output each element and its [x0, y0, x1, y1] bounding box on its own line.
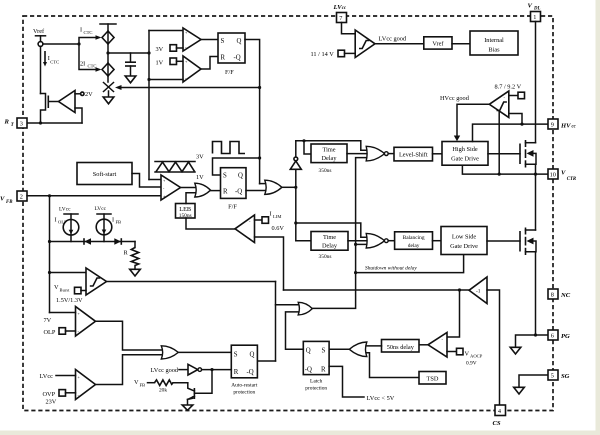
svg-text:350ns: 350ns	[319, 254, 332, 260]
wire HVcc comp output to driver	[457, 104, 489, 136]
wire VCTR rail	[462, 165, 548, 174]
svg-text:Q: Q	[306, 348, 311, 355]
svg-text:R: R	[124, 250, 129, 257]
wire shutdown net vertical	[312, 158, 366, 309]
wire into time delay 1	[304, 141, 311, 154]
comparator OVP	[76, 370, 96, 400]
svg-text:CS: CS	[493, 420, 501, 427]
junction bus lower comparator	[147, 78, 150, 81]
svg-text:protection: protection	[233, 390, 255, 396]
svg-text:V: V	[0, 196, 5, 203]
label VFB	[0, 196, 13, 206]
junction R / transistor	[210, 368, 213, 371]
label VCTR	[561, 170, 577, 183]
wire shutdown without delay	[356, 255, 464, 273]
svg-text:Burst: Burst	[60, 288, 71, 293]
wire OR5 output	[282, 186, 296, 188]
OLP terminal	[44, 328, 76, 336]
diode D1	[84, 238, 91, 245]
label RT	[4, 119, 15, 129]
svg-text:I: I	[55, 217, 57, 224]
svg-text:CTC: CTC	[84, 30, 93, 35]
label 2I CTC	[80, 61, 96, 69]
wire latch Q to OR2	[286, 312, 304, 349]
junction HVcc sense	[520, 123, 523, 126]
wire to discharge switch	[107, 76, 109, 82]
svg-text:protection: protection	[305, 386, 327, 392]
svg-text:Delay: Delay	[322, 243, 338, 250]
wire between current sources	[107, 44, 109, 63]
arrowhead at switch	[115, 85, 122, 90]
label I LIM	[270, 211, 282, 220]
comparator LVcc good (schmitt)	[355, 30, 375, 58]
pin 8 NC	[548, 289, 558, 299]
time delay 2 block	[311, 232, 348, 251]
svg-text:Internal: Internal	[484, 37, 504, 44]
svg-text:2I: 2I	[80, 61, 85, 68]
OVP terminal	[43, 390, 76, 398]
svg-text:0.6V: 0.6V	[272, 225, 285, 232]
svg-text:R: R	[221, 55, 226, 62]
transistor M1 (mosfet near RT)	[41, 94, 59, 124]
svg-text:-Q: -Q	[234, 55, 241, 62]
wire comp body to VCTR	[498, 111, 500, 175]
svg-text:R: R	[223, 189, 228, 196]
ground below R	[130, 269, 141, 276]
svg-text:Latch: Latch	[310, 379, 323, 385]
svg-text:Vref: Vref	[432, 41, 444, 48]
svg-text:-Q: -Q	[247, 369, 254, 376]
svg-text:LEB: LEB	[179, 206, 191, 213]
pin 9 HVcc	[548, 119, 558, 129]
2V terminal	[75, 91, 93, 98]
svg-text:S: S	[223, 173, 227, 180]
wire branch down to 2ICTC arrow	[79, 44, 96, 70]
svg-text:5: 5	[551, 373, 554, 380]
wire -1 output to ILIM net	[284, 289, 470, 291]
pin 3 RT	[17, 118, 27, 128]
ground below switch	[103, 97, 114, 104]
ground SG	[514, 387, 525, 394]
svg-text:1.5V/1.3V: 1.5V/1.3V	[56, 297, 83, 304]
svg-text:Q: Q	[237, 38, 242, 45]
label VFB resistor input	[134, 379, 145, 388]
sawtooth waveform icon	[155, 162, 195, 173]
svg-text:9: 9	[551, 122, 554, 129]
svg-text:Q: Q	[238, 173, 243, 180]
wire NOR1 to level shift	[388, 153, 394, 155]
page edge strip right	[596, 0, 600, 435]
junction RT node	[39, 121, 42, 124]
wire Vref node to current-source branch	[43, 43, 79, 45]
OR gate U4	[195, 183, 211, 197]
wire to AOCP comparator	[447, 290, 460, 337]
svg-text:Vref: Vref	[33, 28, 45, 35]
pin 1 VDL	[531, 12, 541, 22]
flip-flop F/F oscillator	[218, 33, 245, 76]
wire inverter out to NOR1	[296, 141, 367, 150]
comparator ILIM (points left)	[235, 215, 255, 243]
wire auto-restart Q	[257, 360, 275, 362]
svg-text:R: R	[234, 369, 239, 376]
svg-text:7V: 7V	[44, 317, 52, 324]
junction bus/CT	[147, 51, 150, 54]
svg-text:HVcc good: HVcc good	[440, 95, 470, 102]
svg-text:Auto-restart: Auto-restart	[231, 383, 258, 389]
junction VCTR comp body	[498, 173, 501, 176]
label HVcc	[560, 123, 577, 130]
svg-text:8.7 / 9.2 V: 8.7 / 9.2 V	[495, 84, 522, 91]
svg-text:Level-Shift: Level-Shift	[399, 152, 428, 159]
svg-text:8: 8	[551, 292, 554, 299]
wire diode string	[50, 241, 136, 243]
OR gate U5	[265, 180, 282, 194]
svg-text:S: S	[322, 348, 326, 355]
wire burst comp output	[107, 281, 276, 283]
wire CT node to comparator bus	[108, 52, 149, 54]
wire high side driver to gate	[488, 153, 520, 155]
transistor Q1 (bjt)	[188, 383, 195, 405]
svg-text:LVcc good: LVcc good	[379, 36, 407, 43]
svg-text:Shutdown without delay: Shutdown without delay	[365, 266, 417, 272]
svg-text:FB: FB	[140, 383, 146, 388]
PFM comparator	[161, 175, 181, 200]
wire OVP out to OR gate	[96, 355, 162, 385]
svg-text:1V: 1V	[196, 174, 204, 181]
wire TSD to OR9	[367, 353, 419, 378]
svg-text:CTR: CTR	[567, 177, 577, 182]
1V terminal square	[170, 58, 183, 65]
wire VDL to high mosfet drain	[535, 22, 537, 143]
ground PG	[510, 347, 521, 354]
pin 6 PG	[548, 330, 558, 340]
comparator U2 (3V)	[183, 28, 201, 51]
comparator AOCP (points left)	[428, 333, 447, 358]
current source I_FB	[95, 206, 112, 242]
low side gate drive block	[441, 227, 487, 255]
wire balancing to low side driver	[433, 240, 442, 242]
high side gate drive block	[442, 142, 488, 166]
time delay 1 block	[311, 144, 347, 163]
3V terminal square	[170, 45, 183, 52]
junction PG source	[534, 333, 537, 336]
label LVcc pin7	[333, 4, 347, 11]
wire bus to comparator U3 minus input	[149, 79, 183, 81]
arrow into high side driver	[454, 136, 460, 142]
label V AOCP	[465, 351, 483, 359]
svg-text:V: V	[465, 351, 470, 358]
label V Burst	[54, 284, 70, 293]
current annotation I_CTC	[43, 51, 59, 67]
svg-text:50ns delay: 50ns delay	[387, 344, 415, 351]
current source I_OLP	[59, 207, 79, 242]
wire bus to PFM comparator	[149, 179, 161, 181]
wire F/F2 -Q to OR5	[246, 190, 265, 192]
wire U3 out to F/F R	[201, 57, 218, 70]
wire TD2 path to NOR2	[296, 223, 367, 237]
pin 4 CS	[495, 405, 506, 416]
wire branch up to ICTC arrow	[79, 38, 96, 45]
OR gate U11	[161, 346, 178, 359]
wire 50ns delay to OR9	[367, 345, 382, 347]
svg-text:V: V	[134, 379, 139, 386]
wire burst/auto-restart vertical	[275, 282, 277, 362]
svg-text:-1: -1	[476, 289, 481, 295]
wire level shift to high side driver	[433, 153, 443, 155]
svg-text:cc: cc	[572, 125, 577, 130]
latch protection flip-flop	[303, 341, 329, 391]
svg-text:Gate Drive: Gate Drive	[451, 156, 479, 163]
wire pin7 to LVcc comparator	[342, 23, 356, 34]
junction shutdown NOR2	[354, 243, 357, 246]
discharge switch	[104, 83, 114, 97]
switch control wire from F/F Q	[120, 87, 260, 89]
wire bus to comparator U2 plus input	[149, 30, 183, 32]
OR gate U10	[298, 302, 312, 315]
svg-text:V: V	[54, 284, 59, 291]
svg-text:delay: delay	[408, 243, 420, 249]
inverter U6 (points up)	[290, 141, 301, 188]
svg-text:3: 3	[20, 121, 23, 128]
wire into time delay 2	[296, 240, 311, 242]
pin 2 VFB	[17, 191, 27, 201]
svg-text:Gate Drive: Gate Drive	[450, 243, 478, 250]
svg-text:T: T	[11, 123, 15, 128]
svg-text:2V: 2V	[85, 91, 93, 98]
svg-text:1V: 1V	[156, 60, 164, 67]
svg-text:I: I	[80, 27, 82, 34]
supply bar above current source	[100, 24, 116, 31]
svg-text:7: 7	[339, 15, 342, 22]
wire OR to F/F R	[211, 190, 221, 192]
svg-text:OLP: OLP	[58, 220, 67, 225]
svg-text:LVcc < 5V: LVcc < 5V	[367, 395, 395, 402]
wire ILIM comparator to LEB	[186, 218, 235, 229]
label I OLP	[55, 217, 68, 225]
flip-flop F/F PFM	[221, 168, 247, 211]
pin 5 SG	[548, 370, 558, 380]
svg-text:Time: Time	[323, 234, 336, 241]
comparator input bus	[148, 31, 150, 180]
wire OLP out to OR gate	[96, 321, 162, 350]
wire VFB rail to OLP	[50, 312, 76, 314]
svg-text:150ns: 150ns	[179, 213, 192, 219]
OR gate U9 (points left)	[349, 342, 367, 357]
wire TD2 out to NOR2	[348, 240, 367, 242]
svg-text:R: R	[321, 367, 326, 374]
svg-text:LVcc: LVcc	[59, 207, 71, 213]
pin 7 LVcc	[337, 13, 347, 23]
svg-text:Low Side: Low Side	[452, 234, 477, 241]
label I CTC	[80, 27, 92, 36]
svg-text:OLP: OLP	[44, 329, 56, 336]
wire half bridge node	[535, 174, 537, 230]
svg-text:PG: PG	[561, 333, 570, 340]
svg-text:S: S	[221, 38, 225, 45]
svg-text:6: 6	[551, 333, 554, 340]
auto-restart protection flip-flop	[231, 345, 258, 395]
svg-text:CTC: CTC	[88, 63, 97, 68]
current source I_CTC (diamond)	[102, 31, 114, 44]
square wave icon	[213, 142, 246, 154]
wire PFM comp to OR gate	[181, 187, 195, 189]
wire latch R to LVcc<5V	[329, 366, 364, 397]
diode D2	[114, 238, 121, 245]
Vref terminal	[33, 28, 46, 46]
svg-text:Time: Time	[322, 147, 335, 154]
arrow into 2ICTC source	[96, 67, 102, 72]
svg-text:-Q: -Q	[235, 189, 242, 196]
wire low side driver to gate	[487, 240, 520, 242]
resistor R	[124, 242, 139, 270]
ground below Q1	[182, 405, 193, 410]
svg-text:I: I	[112, 217, 114, 224]
inverter U12	[188, 364, 202, 375]
svg-text:F/F: F/F	[228, 204, 237, 211]
8.7/9.2V terminal	[509, 92, 525, 99]
svg-text:Soft-start: Soft-start	[93, 171, 117, 178]
svg-text:CTC: CTC	[50, 60, 59, 65]
svg-text:Balancing: Balancing	[403, 235, 425, 241]
node CT junction	[106, 51, 109, 54]
svg-text:2: 2	[20, 194, 23, 201]
50ns delay block	[382, 340, 420, 353]
wire U2 out to F/F S	[201, 39, 218, 41]
junction VFB node	[48, 194, 51, 197]
svg-text:AOCP: AOCP	[470, 354, 483, 359]
junction burst branch	[48, 271, 51, 274]
wire Vref node down to mosfet	[40, 46, 42, 93]
svg-text:OVP: OVP	[43, 391, 56, 398]
NOR gate U7	[366, 146, 388, 161]
junction TD1 branch	[302, 139, 305, 142]
svg-text:TSD: TSD	[427, 376, 439, 383]
VAOCP terminal	[447, 348, 463, 355]
svg-text:FB: FB	[6, 200, 13, 205]
TSD block	[419, 372, 446, 385]
wire ILIM plus input to CS inverted signal	[255, 237, 284, 290]
wire Vref to internal bias	[452, 43, 470, 45]
wire VFB vertical rail	[49, 196, 51, 313]
wire into inverter	[179, 369, 188, 371]
capacitor CT	[125, 53, 136, 76]
wire soft-start to PFM comparator	[132, 174, 161, 188]
svg-text:High Side: High Side	[452, 146, 478, 153]
svg-text:10: 10	[550, 172, 556, 179]
wire HVcc rail	[473, 124, 549, 141]
wire TD1 out to NOR1	[347, 153, 367, 155]
comparator U3 (1V)	[183, 56, 201, 82]
op-amp 2V reference (points left)	[59, 91, 76, 113]
junction VCTR source	[534, 173, 537, 176]
NOR gate U8	[366, 233, 388, 248]
wire LEB to OR gate	[186, 193, 195, 204]
svg-text:3V: 3V	[196, 154, 204, 161]
svg-text:F/F: F/F	[225, 69, 234, 76]
wire junction down to collector	[194, 370, 212, 394]
wire VFB pin to PFM comparator	[27, 195, 161, 197]
svg-text:DL: DL	[533, 7, 540, 12]
svg-text:1: 1	[533, 14, 536, 21]
svg-text:20k: 20k	[159, 388, 167, 394]
svg-text:0.9V: 0.9V	[466, 361, 477, 367]
arrow into ICTC source	[96, 35, 102, 40]
junction Q/S2	[258, 156, 261, 159]
svg-text:NC: NC	[560, 292, 571, 299]
wire shutdown into NOR2	[356, 243, 367, 245]
wire drive node down to TD2 path	[295, 187, 297, 240]
svg-text:LVcc: LVcc	[95, 206, 107, 212]
svg-text:Q: Q	[250, 352, 255, 359]
transistor QL (low side mosfet)	[520, 228, 536, 336]
wire SG rail	[519, 375, 548, 387]
svg-text:cc: cc	[342, 6, 347, 11]
svg-text:350ns: 350ns	[319, 168, 332, 174]
comparator burst (schmitt)	[86, 268, 107, 295]
transistor QH (high side mosfet)	[520, 140, 536, 174]
VBurst terminal	[75, 287, 87, 294]
svg-text:Bias: Bias	[488, 47, 500, 54]
svg-text:SG: SG	[561, 373, 570, 380]
svg-text:3V: 3V	[156, 46, 164, 53]
11/14V terminal	[311, 50, 356, 58]
label VDL	[528, 3, 541, 12]
wire OR9 to latch S	[329, 348, 349, 350]
current source 2I_CTC (diamond)	[102, 63, 114, 76]
svg-text:S: S	[234, 352, 238, 359]
wire Q vertical into OR5 top	[260, 183, 265, 185]
junction Q/switch-control	[258, 86, 261, 89]
wire CS signal to -1 input	[487, 290, 500, 405]
LEB block	[176, 204, 196, 219]
wire burst net corner into OR10	[276, 304, 299, 306]
svg-text:Delay: Delay	[321, 155, 337, 162]
wire inverter to auto-restart R	[202, 369, 232, 371]
internal bias block	[470, 31, 518, 55]
junction TD2 branch	[294, 221, 297, 224]
amplifier -1 (points left)	[469, 277, 487, 304]
label I FB	[112, 217, 121, 225]
svg-text:23V: 23V	[46, 399, 57, 406]
Vref block	[424, 37, 452, 49]
pin 10 VCTR	[548, 169, 558, 179]
svg-text:LVcc good: LVcc good	[151, 367, 179, 374]
level shift block	[394, 147, 433, 161]
soft-start block	[77, 163, 132, 185]
balancing delay block	[395, 232, 433, 250]
junction shutdown/low-side return	[354, 271, 357, 274]
junction diode branch	[48, 240, 51, 243]
wire PG rail	[516, 335, 549, 347]
comparator HVcc good (schmitt, points left)	[489, 91, 509, 118]
junction drive node	[294, 186, 297, 189]
svg-text:I: I	[270, 211, 272, 218]
svg-text:V: V	[528, 3, 533, 10]
junction AOCP branch	[458, 288, 461, 291]
resistor 20k	[148, 380, 188, 394]
wire AOCP out to 50ns delay	[419, 344, 428, 346]
wire F/F Q output down	[245, 40, 260, 184]
svg-text:-Q: -Q	[305, 367, 312, 374]
wire RT pin to op-amp	[27, 122, 82, 124]
comparator OLP	[76, 307, 96, 337]
svg-text:FB: FB	[116, 220, 122, 225]
wire LVcc comp to Vref block	[375, 43, 424, 45]
op-amp feedback wire	[75, 108, 82, 123]
svg-text:11 / 14 V: 11 / 14 V	[311, 51, 335, 58]
page edge strip bottom	[0, 431, 600, 435]
svg-text:HV: HV	[560, 123, 571, 130]
